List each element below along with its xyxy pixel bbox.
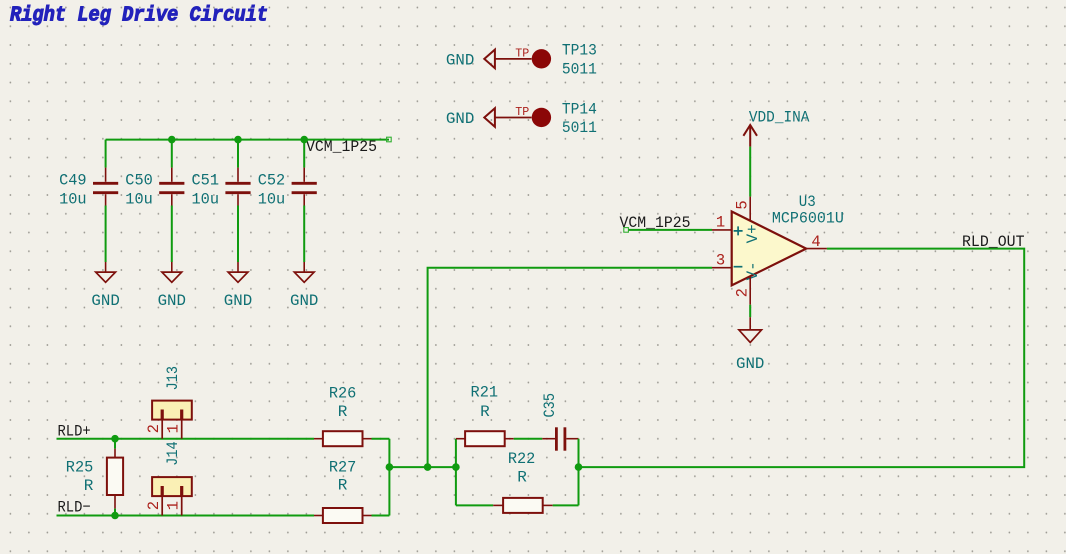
wire RLD+ to R25 [114, 439, 116, 449]
svg-text:RLD−: RLD− [58, 499, 91, 517]
test point TP14 [446, 100, 597, 137]
pin 2 [733, 276, 751, 305]
svg-text:2: 2 [733, 288, 751, 297]
wire R26 to corner [372, 438, 390, 440]
svg-text:R: R [480, 403, 490, 421]
svg-text:RLD+: RLD+ [58, 422, 91, 440]
svg-text:10u: 10u [125, 190, 153, 208]
pin 4 [806, 233, 827, 251]
capacitor C49 [59, 140, 118, 209]
power VDD_INA [743, 109, 809, 147]
junction [386, 463, 394, 471]
svg-text:GND: GND [158, 292, 186, 310]
op-amp U3 MCP6001U [732, 193, 844, 285]
ground under C51 [224, 262, 252, 310]
svg-text:1: 1 [164, 501, 182, 510]
connector J13 [145, 366, 192, 439]
junction [111, 512, 119, 520]
junction [300, 136, 308, 144]
node RLD+ label [58, 422, 91, 440]
wire VDD_INA to pin 5 [749, 147, 751, 197]
resistor R22 [493, 450, 553, 513]
svg-text:5011: 5011 [562, 119, 597, 137]
wire R27 to corner [372, 515, 390, 517]
svg-text:C49: C49 [59, 172, 87, 190]
ground under U3 [736, 317, 764, 373]
ground under C50 [158, 262, 186, 310]
junction [452, 463, 460, 471]
svg-text:4: 4 [811, 233, 820, 251]
pin 5 [733, 197, 751, 221]
svg-text:R: R [338, 477, 348, 495]
ground under C52 [290, 262, 318, 310]
svg-text:R22: R22 [508, 450, 536, 468]
svg-text:MCP6001U: MCP6001U [772, 210, 844, 228]
node RLD_OUT label [962, 233, 1025, 251]
wire junction row [389, 466, 456, 468]
svg-text:C51: C51 [192, 172, 220, 190]
node VCM_1P25 label [306, 138, 377, 156]
svg-text:C35: C35 [541, 393, 559, 418]
wire R25 to RLD- [114, 509, 116, 516]
svg-text:R: R [338, 403, 348, 421]
svg-text:2: 2 [145, 501, 163, 510]
wire RLD_OUT from pin 4 [579, 249, 1025, 468]
junction [424, 463, 432, 471]
svg-text:1: 1 [716, 214, 725, 232]
svg-text:V-: V- [744, 261, 762, 280]
svg-text:10u: 10u [192, 190, 220, 208]
svg-text:J14: J14 [164, 441, 182, 466]
svg-text:R26: R26 [329, 385, 357, 403]
wire feedback node to pin 3 [428, 268, 712, 467]
svg-text:5: 5 [733, 200, 751, 209]
svg-text:GND: GND [224, 292, 252, 310]
svg-text:TP: TP [515, 46, 529, 60]
svg-text:VCM_1P25: VCM_1P25 [306, 138, 377, 156]
svg-text:R: R [84, 477, 94, 495]
svg-text:RLD_OUT: RLD_OUT [962, 233, 1025, 251]
svg-text:C52: C52 [258, 172, 286, 190]
wire R21 to C35 [514, 438, 543, 440]
wire VCM_1P25 top bus [106, 137, 392, 142]
wire to R22 [456, 504, 493, 506]
pin 3 [712, 251, 732, 269]
svg-text:C50: C50 [125, 172, 153, 190]
wire R26/R27 junction vertical [388, 439, 390, 516]
capacitor C35 [541, 393, 578, 451]
junction [111, 435, 119, 443]
wire C49 to ground [105, 206, 107, 263]
svg-text:U3: U3 [799, 193, 816, 211]
svg-text:J13: J13 [164, 366, 182, 391]
svg-text:2: 2 [145, 424, 163, 433]
svg-text:TP14: TP14 [562, 100, 597, 118]
capacitor C52 [258, 140, 317, 209]
connector J14 [145, 441, 192, 515]
svg-text:10u: 10u [59, 190, 87, 208]
wire RLD- [57, 515, 315, 517]
junction [234, 136, 242, 144]
svg-text:1: 1 [164, 424, 182, 433]
svg-text:GND: GND [446, 51, 474, 69]
svg-text:TP: TP [515, 105, 529, 119]
svg-text:V+: V+ [744, 224, 762, 243]
wire pin 2 to ground [749, 305, 751, 318]
wire RLD+ [57, 438, 315, 440]
svg-text:5011: 5011 [562, 60, 597, 78]
capacitor C51 [192, 140, 251, 209]
resistor R27 [314, 459, 372, 523]
wire C51 to ground [237, 206, 239, 263]
svg-text:R: R [517, 468, 527, 486]
wire R22 to node [553, 504, 579, 506]
svg-text:GND: GND [290, 292, 318, 310]
resistor R26 [314, 385, 372, 447]
wire C52 to ground [303, 206, 305, 263]
pin 1 [712, 214, 732, 232]
wire C50 to ground [171, 206, 173, 263]
junction [168, 136, 176, 144]
wire left branch vertical [455, 439, 457, 506]
svg-text:10u: 10u [258, 190, 286, 208]
svg-text:GND: GND [736, 355, 764, 373]
svg-text:GND: GND [446, 110, 474, 128]
test point TP13 [446, 42, 597, 79]
node RLD- label [58, 499, 91, 517]
svg-text:TP13: TP13 [562, 42, 597, 60]
svg-text:GND: GND [91, 292, 119, 310]
svg-text:R25: R25 [66, 459, 94, 477]
node VCM_1P25 label at pin 1 [620, 214, 691, 232]
junction [575, 463, 583, 471]
svg-text:VDD_INA: VDD_INA [749, 109, 810, 127]
capacitor C50 [125, 140, 184, 209]
resistor R25 [66, 449, 123, 509]
svg-text:3: 3 [716, 251, 725, 269]
wire right branch vertical [578, 439, 580, 506]
resistor R21 [456, 384, 514, 447]
svg-text:Right Leg Drive Circuit: Right Leg Drive Circuit [10, 3, 268, 27]
svg-text:R27: R27 [329, 459, 357, 477]
wire VCM_1P25 to pin 1 [629, 229, 712, 231]
svg-text:R21: R21 [471, 384, 499, 402]
ground under C49 [91, 262, 119, 310]
